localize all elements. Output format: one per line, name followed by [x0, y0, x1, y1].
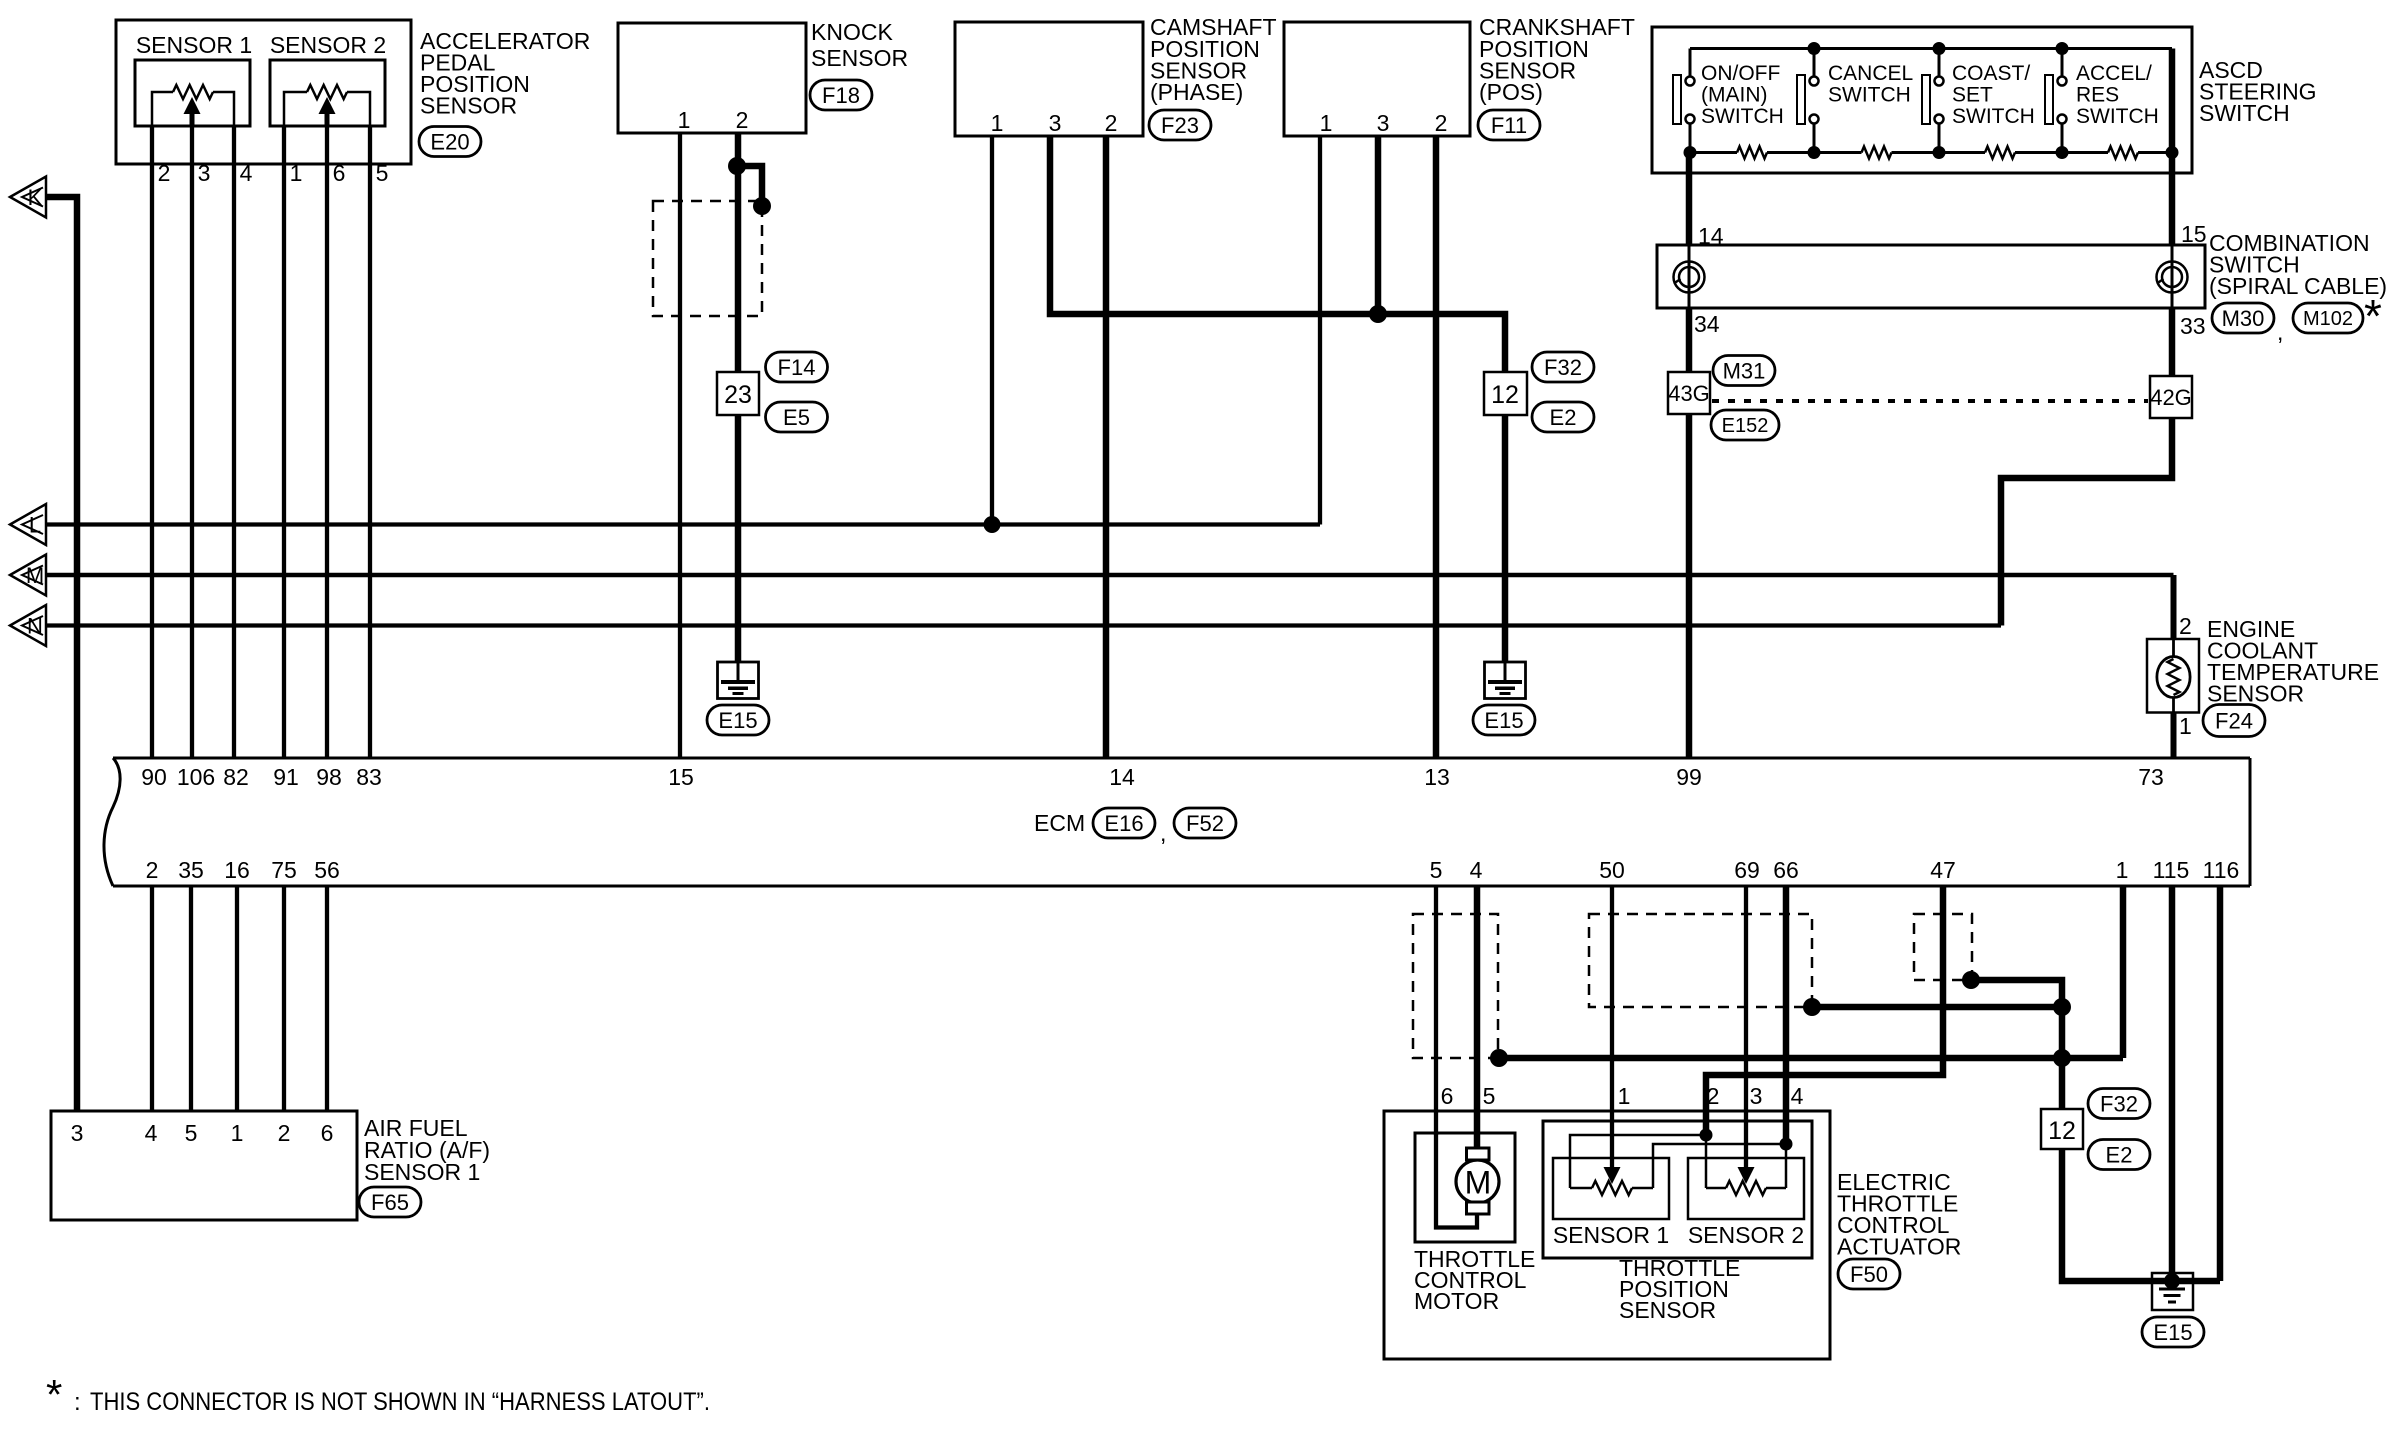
- ground E15 (position sensors): [1485, 662, 1526, 699]
- junction at ground E15: [2164, 1273, 2180, 1289]
- svg-text:2: 2: [146, 857, 159, 883]
- wire E20 pin 2 to ECM pin 90: [150, 126, 154, 758]
- wire connector 42G to bus N: [2001, 418, 2172, 626]
- svg-text:6: 6: [321, 1120, 334, 1146]
- svg-text:E2: E2: [2106, 1142, 2133, 1167]
- wire K to A/F sensor pin 3: [46, 197, 77, 1111]
- svg-text:THIS CONNECTOR IS NOT SHOWN IN: THIS CONNECTOR IS NOT SHOWN IN “HARNESS …: [90, 1388, 710, 1416]
- svg-text:2: 2: [736, 107, 749, 133]
- svg-text:16: 16: [224, 857, 250, 883]
- svg-text:50: 50: [1599, 857, 1625, 883]
- svg-text:M30: M30: [2222, 306, 2265, 331]
- svg-text:E152: E152: [1722, 415, 1769, 437]
- svg-text:1: 1: [231, 1120, 244, 1146]
- svg-text:13: 13: [1424, 764, 1450, 790]
- svg-text:4: 4: [1470, 857, 1483, 883]
- svg-text:47: 47: [1930, 857, 1956, 883]
- junction shield drain motor: [1490, 1049, 1508, 1067]
- svg-text:1: 1: [2179, 713, 2192, 739]
- wire ECM pin 115 to ground E15: [2169, 886, 2176, 1281]
- wire TPS sensor 1 low end to pin 4 node: [1653, 1144, 1786, 1188]
- svg-text:73: 73: [2138, 764, 2164, 790]
- svg-text:CANCEL: CANCEL: [1828, 62, 1913, 85]
- svg-text:MOTOR: MOTOR: [1414, 1288, 1499, 1314]
- svg-text:F52: F52: [1186, 811, 1224, 836]
- svg-text:SENSOR: SENSOR: [1619, 1297, 1716, 1323]
- spiral cable symbol (pin 14 side): [1674, 262, 1705, 293]
- junction on TPS pin 4 wire: [1780, 1138, 1793, 1151]
- svg-text:SENSOR 2: SENSOR 2: [1688, 1222, 1804, 1248]
- svg-text:E2: E2: [1550, 405, 1577, 430]
- wire F11 pin 3 to node: [1375, 136, 1382, 314]
- wire shield drain (pin 47 shield) to node: [1971, 980, 2062, 1109]
- ASCD steering switch box: [1652, 27, 2192, 173]
- potentiometer TPS sensor 1: [1570, 1187, 1592, 1190]
- svg-text:SWITCH: SWITCH: [2199, 100, 2290, 126]
- svg-text:75: 75: [271, 857, 297, 883]
- svg-text:SENSOR: SENSOR: [420, 93, 517, 119]
- svg-text:6: 6: [1441, 1083, 1454, 1109]
- svg-text:RES: RES: [2076, 84, 2119, 107]
- wire shield drain (motor shield) to ECM pin 1: [1499, 1055, 2123, 1062]
- TPS sensor 2 box: [1688, 1158, 1804, 1219]
- junction F23 pin 1 on bus L: [984, 516, 1001, 533]
- wire F23 pin 2 to ECM pin 14: [1103, 136, 1110, 758]
- svg-text:1: 1: [1320, 110, 1333, 136]
- svg-text:1: 1: [2116, 857, 2129, 883]
- connector code F65: [359, 1187, 421, 1217]
- connector code F11: [1478, 110, 1540, 140]
- svg-text:82: 82: [223, 764, 249, 790]
- svg-text:E16: E16: [1104, 811, 1143, 836]
- svg-text:1: 1: [290, 160, 303, 186]
- svg-text:14: 14: [1109, 764, 1135, 790]
- connector 12 F32/E2 (shield ground): [2041, 1109, 2083, 1149]
- svg-text:SWITCH: SWITCH: [2076, 105, 2159, 128]
- wire F23 pin 3 to connector 12: [1050, 136, 1505, 372]
- junction on knock sensor pin 2 wire: [728, 157, 746, 175]
- junction node shield drains lower: [2053, 1049, 2071, 1067]
- svg-text:*: *: [46, 1371, 62, 1418]
- wire connector 23 to ground E15: [735, 415, 742, 662]
- wire E20 pin 6 to ECM pin 98: [325, 126, 329, 758]
- ground E15 (knock sensor): [718, 662, 759, 699]
- svg-text:F18: F18: [822, 83, 860, 108]
- crankshaft position sensor F11 box: [1284, 22, 1470, 136]
- svg-text:12: 12: [1491, 381, 1519, 409]
- svg-text:(PHASE): (PHASE): [1150, 79, 1243, 105]
- wire ECM pin 5 to motor pin 6: [1434, 886, 1438, 1135]
- connector 43G: [1668, 372, 1710, 414]
- wire ECM pin 50 to TPS pin 1 (sensor 1 wiper): [1610, 886, 1614, 1168]
- ground E15 (ECM grounds): [2152, 1273, 2193, 1310]
- resistor R4 (ACCEL/RES): [2108, 149, 2138, 156]
- svg-text:1: 1: [678, 107, 691, 133]
- svg-text:5: 5: [185, 1120, 198, 1146]
- wire E20 pin 5 to ECM pin 83: [368, 126, 372, 758]
- knock sensor F18 box: [618, 23, 806, 133]
- wire ECM pin 75 to F65 pin 2: [282, 886, 286, 1111]
- wire ECM pin 4 to motor pin 5: [1474, 886, 1481, 1148]
- svg-text:L: L: [29, 513, 41, 538]
- svg-text:,: ,: [1160, 820, 1166, 846]
- svg-text:42G: 42G: [2150, 385, 2192, 410]
- svg-text:69: 69: [1734, 857, 1760, 883]
- svg-text:33: 33: [2180, 313, 2206, 339]
- svg-text:2: 2: [158, 160, 171, 186]
- svg-text:ACCEL/: ACCEL/: [2076, 62, 2152, 85]
- node ASCD pin 15: [2166, 146, 2179, 159]
- svg-text:99: 99: [1676, 764, 1702, 790]
- engine coolant temperature sensor F24 (thermistor): [2147, 639, 2199, 713]
- off-page connector arrow N: [10, 605, 46, 646]
- svg-text:3: 3: [1049, 110, 1062, 136]
- svg-text:34: 34: [1694, 311, 1720, 337]
- svg-text:F65: F65: [371, 1190, 409, 1215]
- wire ECM pin 16 to F65 pin 1: [235, 886, 239, 1111]
- wire shield drain (TPS shield) to node: [1812, 1004, 2062, 1011]
- combination switch box M30/M102: [1657, 245, 2205, 308]
- ASCD common bus (top): [1690, 47, 2172, 50]
- connector 23 F14/E5: [717, 372, 759, 415]
- junction node shield drains upper: [2053, 998, 2071, 1016]
- svg-text:F11: F11: [1491, 113, 1527, 138]
- motor M (throttle control motor): [1456, 1160, 1499, 1203]
- svg-text:3: 3: [198, 160, 211, 186]
- connector 12 F32/E2: [1484, 372, 1527, 415]
- TPS sensor 1 box: [1553, 1158, 1669, 1219]
- svg-text:M102: M102: [2303, 308, 2353, 330]
- svg-text:SENSOR 1: SENSOR 1: [1553, 1222, 1669, 1248]
- svg-text:(POS): (POS): [1479, 79, 1543, 105]
- wire F18 pin 2 to connector 23: [735, 133, 742, 372]
- connector 42G: [2150, 376, 2192, 418]
- shield (dashed) around motor wires: [1413, 914, 1498, 1058]
- svg-text:SENSOR 1: SENSOR 1: [136, 32, 252, 58]
- svg-text:3: 3: [1750, 1083, 1763, 1109]
- svg-text:12: 12: [2048, 1117, 2076, 1145]
- svg-text:116: 116: [2203, 857, 2240, 883]
- svg-text:ACTUATOR: ACTUATOR: [1837, 1234, 1961, 1260]
- svg-text:E15: E15: [1484, 708, 1523, 733]
- svg-text:E20: E20: [430, 129, 469, 154]
- ASCD resistor ladder bus (bottom): [1690, 151, 2172, 154]
- wire motor pin 6 to brush: [1436, 1133, 1477, 1228]
- svg-text:KNOCK: KNOCK: [811, 19, 893, 45]
- svg-text:M: M: [26, 563, 44, 588]
- svg-text:M31: M31: [1723, 358, 1766, 383]
- air fuel ratio sensor F65 box: [51, 1111, 357, 1220]
- svg-text:2: 2: [1707, 1083, 1720, 1109]
- wire F11 pin 2 to ECM pin 13: [1433, 136, 1440, 758]
- svg-text:SWITCH: SWITCH: [1701, 105, 1784, 128]
- svg-text:2: 2: [1105, 110, 1118, 136]
- wire bus M to ECT sensor pin 2: [46, 573, 2174, 578]
- resistor R1 (ON/OFF): [1737, 149, 1767, 156]
- svg-text:66: 66: [1773, 857, 1799, 883]
- svg-text:E5: E5: [783, 405, 810, 430]
- svg-text:90: 90: [141, 764, 167, 790]
- svg-text:E15: E15: [2153, 1320, 2192, 1345]
- spiral cable symbol (pin 15 side): [2157, 262, 2188, 293]
- wire F23 pin 1 to bus L: [990, 136, 994, 525]
- resistor R3 (COAST/SET): [1985, 149, 2015, 156]
- wire connector 12 to ground E15: [1502, 415, 1509, 662]
- svg-text:83: 83: [356, 764, 382, 790]
- connector code F50: [1838, 1259, 1900, 1289]
- junction shield drain 47: [1962, 971, 1980, 989]
- svg-text:COAST/: COAST/: [1952, 62, 2030, 85]
- svg-text:23: 23: [724, 381, 752, 409]
- connector code F24: [2203, 705, 2265, 737]
- camshaft position sensor F23 box: [955, 22, 1143, 136]
- potentiometer sensor 2 of E20: [284, 92, 370, 126]
- shield (dashed) around TPS signal wires: [1589, 914, 1812, 1007]
- svg-text:15: 15: [2181, 221, 2207, 247]
- svg-text:F50: F50: [1850, 1262, 1888, 1287]
- svg-text:F32: F32: [2100, 1091, 2138, 1116]
- connector code E20: [419, 127, 481, 157]
- accelerator pedal position sensor E20 box: [116, 20, 411, 164]
- svg-text:F14: F14: [778, 355, 816, 380]
- svg-text:(SPIRAL CABLE): (SPIRAL CABLE): [2209, 273, 2387, 299]
- svg-text:3: 3: [71, 1120, 84, 1146]
- throttle position sensor box: [1543, 1121, 1812, 1258]
- svg-text:F23: F23: [1161, 113, 1199, 138]
- wire ECM pin 35 to F65 pin 5: [189, 886, 193, 1111]
- ECM box E16/F52: [104, 758, 120, 886]
- potentiometer TPS sensor 2: [1706, 1187, 1726, 1190]
- svg-text:SENSOR: SENSOR: [2207, 681, 2304, 707]
- wire ECM pin 116 to ground E15: [2217, 886, 2224, 1281]
- svg-text:SENSOR 2: SENSOR 2: [270, 32, 386, 58]
- connector codes M31/E152: [1713, 356, 1775, 386]
- svg-text:,: ,: [2277, 319, 2283, 345]
- svg-text:K: K: [28, 185, 43, 210]
- svg-text:5: 5: [1483, 1083, 1496, 1109]
- wire F18 pin 1 to ECM pin 15: [678, 133, 682, 758]
- switch ACCEL/RES: [2061, 49, 2064, 78]
- wire F11 pin 1 to bus L: [1318, 136, 1322, 525]
- svg-text:N: N: [27, 614, 43, 639]
- wire ECM pin 66 to TPS pin 4: [1783, 886, 1790, 1144]
- wire connector 12 to ground E15: [2062, 1149, 2220, 1281]
- wire ASCD pin 14 to combination switch: [1686, 153, 1693, 373]
- switch ON/OFF (MAIN): [1689, 49, 1692, 78]
- svg-text:3: 3: [1377, 110, 1390, 136]
- wire E20 pin 3 to ECM pin 106: [190, 126, 194, 758]
- svg-text:E15: E15: [718, 708, 757, 733]
- svg-text:4: 4: [145, 1120, 158, 1146]
- svg-text:6: 6: [333, 160, 346, 186]
- svg-text:SENSOR 1: SENSOR 1: [364, 1159, 480, 1185]
- wire bus N: [46, 623, 2001, 627]
- switch COAST/SET: [1938, 49, 1941, 78]
- wire ECM pin 47 to TPS pin 2: [1706, 886, 1943, 1135]
- svg-text:56: 56: [314, 857, 340, 883]
- shield (dashed) around pin 47 wire: [1914, 914, 1972, 980]
- off-page connector arrow L: [10, 504, 46, 545]
- svg-text:106: 106: [177, 764, 215, 790]
- svg-text:5: 5: [376, 160, 389, 186]
- svg-text:2: 2: [278, 1120, 291, 1146]
- wire connector 43G to ECM pin 99: [1686, 414, 1693, 758]
- svg-text:SWITCH: SWITCH: [1828, 84, 1911, 107]
- svg-text:1: 1: [1618, 1083, 1631, 1109]
- junction shield drain TPS: [1803, 998, 1821, 1016]
- wire shield branch of knock sensor: [738, 166, 762, 206]
- resistor R2 (CANCEL): [1862, 149, 1892, 156]
- svg-text:SET: SET: [1952, 84, 1993, 107]
- svg-text:4: 4: [240, 160, 253, 186]
- switch CANCEL: [1813, 49, 1816, 78]
- svg-text:15: 15: [668, 764, 694, 790]
- svg-text:2: 2: [1435, 110, 1448, 136]
- svg-text:1: 1: [991, 110, 1004, 136]
- wire ECM pin 69 to TPS pin 3 (sensor 2 wiper): [1744, 886, 1748, 1168]
- svg-text:115: 115: [2153, 857, 2190, 883]
- connector codes M30, M102 *: [2212, 303, 2274, 333]
- wire E20 pin 1 to ECM pin 91: [282, 126, 286, 758]
- svg-text:ON/OFF: ON/OFF: [1701, 62, 1780, 85]
- off-page connector arrow M: [10, 555, 46, 596]
- connector code F23: [1149, 110, 1211, 140]
- svg-text:91: 91: [273, 764, 299, 790]
- off-page connector arrow K: [10, 177, 46, 218]
- svg-text:*: *: [2364, 290, 2382, 342]
- svg-text:5: 5: [1430, 857, 1443, 883]
- wire ECM pin 56 to F65 pin 6: [325, 886, 329, 1111]
- junction F11 pin 3 on sensor ground run: [1369, 305, 1387, 323]
- svg-text:35: 35: [178, 857, 204, 883]
- wire E20 pin 4 to ECM pin 82: [232, 126, 236, 758]
- dotted link 43G to 42G: [1712, 399, 2148, 403]
- svg-text:(MAIN): (MAIN): [1701, 84, 1768, 107]
- connector code F18: [810, 80, 872, 110]
- throttle control motor box: [1415, 1133, 1515, 1242]
- svg-text:2: 2: [2179, 613, 2192, 639]
- junction shield drain knock sensor: [753, 197, 771, 215]
- junctions on ASCD common bus: [1808, 42, 1821, 55]
- svg-text:4: 4: [1791, 1083, 1804, 1109]
- wire F24 pin 1 to ECM pin 73: [2171, 713, 2177, 759]
- wire ECM pin 2 to F65 pin 4: [150, 886, 154, 1111]
- wire TPS sensor 1 high end to pin 2 node: [1570, 1135, 1706, 1188]
- junction on TPS pin 2 wire: [1700, 1129, 1713, 1142]
- wire ASCD pin 15 to combination switch pin 33: [2169, 49, 2176, 377]
- wire bus L: [46, 522, 1320, 526]
- potentiometer sensor 1 of E20: [152, 92, 234, 126]
- svg-text:ECM: ECM: [1034, 810, 1085, 836]
- svg-text:43G: 43G: [1668, 381, 1710, 406]
- svg-text:98: 98: [316, 764, 342, 790]
- svg-text:SENSOR: SENSOR: [811, 45, 908, 71]
- svg-text::: :: [74, 1389, 81, 1416]
- electric throttle control actuator F50 box: [1384, 1111, 1830, 1359]
- svg-text:F24: F24: [2215, 708, 2253, 733]
- svg-text:F32: F32: [1544, 355, 1582, 380]
- svg-text:SWITCH: SWITCH: [1952, 105, 2035, 128]
- svg-text:M: M: [1465, 1165, 1492, 1201]
- shield (dashed) around knock sensor wires: [653, 201, 762, 316]
